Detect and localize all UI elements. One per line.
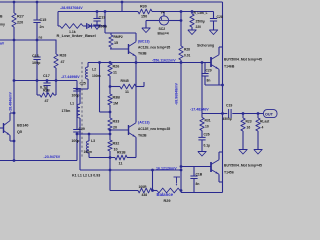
svg-text:1M: 1M bbox=[113, 102, 118, 106]
svg-text:BUY5004_Mot temp=45: BUY5004_Mot temp=45 bbox=[224, 164, 262, 168]
svg-text:R2B: R2B bbox=[43, 89, 50, 93]
svg-text:L3: L3 bbox=[91, 139, 95, 143]
svg-text:100m: 100m bbox=[92, 74, 101, 78]
svg-text:R_Low_linker_Basel: R_Low_linker_Basel bbox=[57, 33, 96, 38]
svg-text:C29: C29 bbox=[206, 69, 212, 73]
svg-text:R_Low_L: R_Low_L bbox=[194, 11, 208, 15]
svg-text:175m: 175m bbox=[62, 109, 71, 113]
svg-text:R28: R28 bbox=[184, 48, 190, 52]
svg-text:-68.96848mV: -68.96848mV bbox=[175, 83, 179, 105]
svg-text:T146B: T146B bbox=[224, 65, 235, 69]
svg-text:0.1µ: 0.1µ bbox=[204, 144, 211, 148]
svg-text:47: 47 bbox=[45, 99, 49, 103]
svg-text:100m: 100m bbox=[84, 150, 93, 154]
svg-text:150: 150 bbox=[141, 15, 147, 19]
svg-text:(BC13): (BC13) bbox=[138, 40, 150, 44]
svg-text:R28: R28 bbox=[60, 54, 67, 58]
svg-text:R31: R31 bbox=[205, 119, 211, 123]
svg-text:T1456: T1456 bbox=[224, 171, 234, 175]
svg-text:220: 220 bbox=[196, 25, 202, 29]
svg-text:100p: 100p bbox=[32, 61, 41, 65]
svg-text:AC12E_nea temp=35: AC12E_nea temp=35 bbox=[138, 46, 170, 50]
svg-text:OUT: OUT bbox=[265, 112, 274, 116]
svg-text:2500µ: 2500µ bbox=[196, 20, 205, 24]
svg-text:BUY5004_Mot temp=45: BUY5004_Mot temp=45 bbox=[224, 58, 262, 62]
svg-text:-28.4846mV: -28.4846mV bbox=[9, 92, 13, 112]
svg-text:10: 10 bbox=[205, 125, 209, 129]
svg-text:my: my bbox=[0, 23, 5, 27]
svg-text:438: 438 bbox=[142, 193, 148, 197]
svg-text:4: 4 bbox=[262, 126, 264, 130]
svg-text:100p: 100p bbox=[72, 139, 80, 143]
svg-text:16.12126mV: 16.12126mV bbox=[156, 166, 177, 170]
svg-text:-17.48246V: -17.48246V bbox=[190, 108, 209, 112]
svg-text:R32: R32 bbox=[113, 142, 120, 146]
svg-text:C16: C16 bbox=[32, 54, 39, 58]
svg-text:R26: R26 bbox=[113, 65, 120, 69]
svg-text:K1 L1 L2 L3 0.93: K1 L1 L2 L3 0.93 bbox=[72, 174, 100, 178]
svg-text:16: 16 bbox=[247, 126, 251, 130]
svg-text:-28.9537084V: -28.9537084V bbox=[60, 6, 83, 10]
svg-text:aV: aV bbox=[0, 42, 5, 46]
svg-text:-23.9476V: -23.9476V bbox=[44, 155, 61, 159]
svg-text:11: 11 bbox=[113, 71, 117, 75]
svg-text:220: 220 bbox=[17, 21, 23, 25]
svg-text:Bias=4: Bias=4 bbox=[158, 32, 169, 36]
svg-text:0.01: 0.01 bbox=[184, 54, 191, 58]
svg-text:R3B: R3B bbox=[113, 96, 121, 100]
svg-text:C25: C25 bbox=[80, 82, 86, 86]
svg-text:BD140: BD140 bbox=[17, 124, 28, 128]
svg-text:R29: R29 bbox=[164, 199, 171, 203]
svg-text:C29: C29 bbox=[79, 127, 85, 131]
svg-text:SC2: SC2 bbox=[159, 27, 166, 31]
svg-text:2n: 2n bbox=[40, 25, 45, 29]
svg-text:8n: 8n bbox=[196, 182, 200, 186]
svg-text:R23: R23 bbox=[246, 120, 252, 124]
svg-text:11: 11 bbox=[125, 90, 129, 94]
svg-text:T62B: T62B bbox=[138, 134, 147, 138]
svg-text:Q5: Q5 bbox=[17, 130, 22, 134]
svg-text:ns: ns bbox=[39, 36, 43, 40]
svg-text:100p: 100p bbox=[99, 25, 108, 29]
svg-text:C13: C13 bbox=[99, 16, 106, 20]
svg-text:RMP2: RMP2 bbox=[114, 35, 123, 39]
svg-text:C28: C28 bbox=[217, 15, 223, 19]
svg-text:L1: L1 bbox=[70, 102, 74, 106]
svg-text:R30: R30 bbox=[140, 5, 147, 9]
svg-text:15: 15 bbox=[114, 41, 118, 45]
svg-text:T63B: T63B bbox=[138, 52, 147, 56]
svg-text:L2: L2 bbox=[92, 67, 96, 71]
svg-text:47: 47 bbox=[61, 60, 65, 64]
svg-text:C26: C26 bbox=[204, 133, 210, 137]
svg-text:100p: 100p bbox=[72, 94, 80, 98]
svg-text:R27: R27 bbox=[17, 15, 24, 19]
svg-text:11: 11 bbox=[119, 162, 123, 166]
svg-text:4500µ: 4500µ bbox=[223, 117, 232, 121]
svg-text:Balance: Balance bbox=[157, 192, 174, 197]
svg-text:R91B: R91B bbox=[117, 151, 126, 155]
svg-text:20: 20 bbox=[113, 126, 117, 130]
svg-text:C17: C17 bbox=[43, 74, 50, 78]
svg-text:C15: C15 bbox=[40, 18, 47, 22]
svg-text:Sicherung: Sicherung bbox=[197, 44, 214, 48]
svg-text:V4: V4 bbox=[161, 11, 165, 15]
svg-text:C1B: C1B bbox=[196, 173, 203, 177]
svg-text:(AC13): (AC13) bbox=[138, 121, 150, 125]
svg-text:R945: R945 bbox=[121, 79, 129, 83]
svg-text:AC12E_nea temp=35: AC12E_nea temp=35 bbox=[138, 127, 170, 131]
svg-text:-556.11622mV: -556.11622mV bbox=[152, 59, 176, 63]
svg-text:R33: R33 bbox=[113, 120, 120, 124]
svg-text:100R: 100R bbox=[139, 185, 148, 189]
svg-text:C19: C19 bbox=[226, 104, 232, 108]
svg-text:8n: 8n bbox=[207, 79, 211, 83]
svg-text:RLast: RLast bbox=[260, 120, 270, 124]
svg-text:-27.44998V: -27.44998V bbox=[61, 75, 80, 79]
